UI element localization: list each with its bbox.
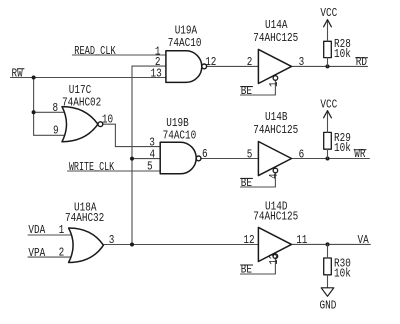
wire VPA to U18A pin 2 [28, 256, 80, 258]
wire WRITE_CLK to U19B pin 5 [68, 170, 161, 172]
node R28 junction [326, 64, 330, 68]
wire U14D output to VA [292, 243, 371, 245]
overline BE U14B [241, 177, 253, 179]
overline RD [356, 57, 368, 59]
buffer U14D 74AHC125 [258, 227, 291, 261]
nor-gate U17C 74AHC02 [62, 107, 98, 142]
node pin4 junction [130, 157, 134, 161]
U14B enable bubble [273, 168, 278, 173]
svg-text:1: 1 [268, 81, 281, 87]
power VCC1 arrow [324, 20, 332, 27]
svg-text:8: 8 [53, 102, 59, 115]
svg-text:VA: VA [358, 234, 370, 247]
overline over W of RW [17, 68, 24, 70]
svg-text:12: 12 [205, 56, 216, 69]
svg-text:3: 3 [299, 56, 305, 69]
svg-text:RW: RW [12, 68, 24, 81]
node U18A output junction [130, 243, 134, 247]
svg-text:2: 2 [247, 56, 253, 69]
svg-text:U19A: U19A [175, 25, 198, 38]
wire U19B output to U14B input [201, 158, 258, 160]
svg-text:READ_CLK: READ_CLK [74, 45, 116, 59]
svg-text:9: 9 [53, 125, 59, 138]
resistor R30 [324, 258, 332, 275]
overline WR [354, 149, 366, 151]
svg-text:10k: 10k [334, 142, 351, 155]
svg-text:74AC10: 74AC10 [163, 130, 197, 143]
wire U14B output to WR [292, 158, 370, 160]
svg-text:74AC10: 74AC10 [168, 37, 202, 50]
U14D enable bubble [273, 254, 278, 259]
wire VA net to R30 [327, 244, 329, 258]
svg-text:VCC: VCC [320, 7, 337, 20]
svg-text:6: 6 [299, 148, 305, 161]
svg-text:1: 1 [59, 224, 65, 237]
svg-text:12: 12 [243, 234, 254, 247]
wire R29 to WR net [327, 149, 329, 158]
svg-text:GND: GND [320, 299, 337, 312]
U17C output bubble [98, 122, 103, 127]
wire VDA to U18A pin 1 [28, 234, 80, 236]
resistor R28 [324, 41, 332, 57]
overline BE U14D [241, 264, 253, 266]
wire READ_CLK to U19A pin 1 [72, 54, 165, 56]
svg-text:74AHC125: 74AHC125 [253, 124, 298, 137]
wire BE to U14B enable [240, 173, 275, 187]
or-gate U18A 74AHC32 [69, 228, 104, 263]
svg-text:74AHC125: 74AHC125 [253, 211, 298, 224]
buffer U14A 74AHC125 [258, 49, 291, 83]
wire VCC1 stem to R28 [327, 20, 329, 41]
wire R28 to RD net [327, 58, 329, 67]
svg-text:3: 3 [109, 234, 115, 247]
svg-text:74AHC02: 74AHC02 [62, 96, 101, 109]
svg-text:5: 5 [147, 161, 153, 174]
buffer U14B 74AHC125 [258, 142, 291, 176]
svg-text:U14B: U14B [265, 111, 288, 124]
wire U14A output to RD [292, 65, 368, 67]
node R29 junction [326, 157, 330, 161]
ground symbol [321, 288, 334, 297]
wire U17C output pin 10 [103, 123, 116, 125]
nand-gate U19B 74AC10 [160, 142, 196, 174]
svg-text:U14A: U14A [265, 19, 288, 32]
svg-text:U19B: U19B [166, 117, 189, 130]
wire U17C pin 8 [34, 111, 68, 113]
wire U18A output to U14D input [103, 244, 258, 246]
wire VCC2 stem to R29 [327, 111, 329, 132]
svg-text:10k: 10k [334, 48, 351, 61]
svg-text:13: 13 [268, 254, 281, 265]
svg-text:10k: 10k [334, 267, 351, 280]
svg-text:VPA: VPA [28, 247, 45, 260]
svg-text:5: 5 [247, 148, 253, 161]
svg-text:74AHC32: 74AHC32 [65, 212, 104, 225]
wire U19A output to U14A input [207, 65, 259, 67]
svg-text:VCC: VCC [320, 98, 337, 111]
wire BE to U14D enable [240, 258, 275, 274]
svg-text:U17C: U17C [69, 84, 91, 97]
resistor R29 [324, 132, 332, 149]
svg-text:10: 10 [102, 113, 113, 126]
svg-text:74AHC125: 74AHC125 [253, 32, 298, 45]
svg-text:2: 2 [59, 247, 65, 260]
wire R30 to GND [327, 275, 329, 288]
wire pin10 vertical jog [114, 124, 116, 146]
power VCC2 arrow [324, 111, 332, 118]
node RW junction [32, 76, 36, 80]
wire RW to U19A pin 13 [11, 77, 166, 79]
nand-gate U19A 74AC10 [166, 51, 202, 83]
wire U19A pin 2 horizontal [132, 65, 166, 67]
wire U17C pin 9 [34, 134, 68, 136]
svg-text:6: 6 [202, 148, 208, 161]
svg-text:VDA: VDA [28, 224, 45, 237]
svg-text:13: 13 [151, 67, 162, 80]
overline BE U14A [241, 86, 253, 88]
U14A enable bubble [273, 76, 278, 81]
svg-text:11: 11 [296, 234, 307, 247]
wire BE to U14A enable [240, 80, 275, 95]
svg-text:4: 4 [268, 173, 281, 179]
node R30 junction [326, 242, 330, 246]
wire RW vertical branch [33, 78, 35, 136]
wire to U19B pin 3 [115, 146, 160, 148]
wire U19B pin 4 [132, 158, 160, 160]
U19B output bubble [196, 156, 201, 161]
wire valid-address vertical bus x=131.8 [131, 66, 133, 244]
node pin8 junction [32, 110, 36, 114]
U19A output bubble [202, 64, 207, 69]
svg-text:WRITE_CLK: WRITE_CLK [69, 161, 115, 175]
